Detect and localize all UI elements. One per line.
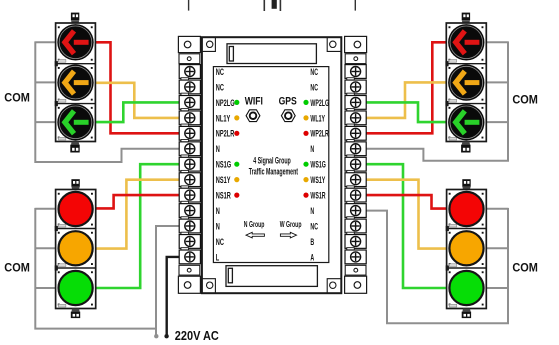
wire yellow bottom-right light to WS1Y — [364, 180, 447, 249]
terminal L1 NC — [179, 65, 200, 79]
wire COM bus bottom-right traffic light (gray) to N terminal — [364, 208, 508, 323]
terminal L9 NS1R — [179, 188, 200, 202]
wire red bottom-right light to WS1R — [364, 195, 447, 209]
mounting tab top — [462, 13, 470, 24]
terminal strip left: spacer bottom — [179, 265, 200, 275]
terminal R7 WS1G — [345, 157, 366, 171]
svg-text:WS1R: WS1R — [310, 190, 326, 201]
svg-text:WP2LG: WP2LG — [310, 97, 329, 108]
traffic light TL1 top-left (left-arrow signal heads) — [55, 13, 96, 153]
svg-text:NS1R: NS1R — [216, 190, 231, 201]
top connector slot — [227, 44, 316, 64]
module tag plates — [449, 224, 457, 307]
LED dot right row 5 — [303, 131, 308, 136]
svg-text:NC: NC — [216, 82, 224, 93]
svg-text:Traffic Management: Traffic Management — [249, 166, 299, 177]
board corner tab bottom-left with mounting hole — [202, 279, 216, 294]
svg-text:WS1G: WS1G — [310, 159, 326, 170]
LED dot right row 7 — [303, 162, 308, 167]
terminal strip left: mounting ear top — [178, 36, 200, 52]
antenna lead left — [188, 0, 190, 11]
LED dot right row 3 — [303, 100, 308, 105]
wire COM bus bottom-left traffic light (gray) to N terminal and mains neutral — [35, 208, 180, 335]
terminal R10 N — [345, 204, 366, 218]
green arrow lens — [57, 104, 93, 140]
LED dot left row 8 — [234, 177, 239, 182]
terminal R9 WS1R — [345, 188, 366, 202]
board corner tab bottom-right with mounting hole — [327, 279, 341, 294]
svg-text:B: B — [310, 236, 314, 247]
svg-text:COM: COM — [512, 94, 538, 106]
board corner tab top-right with mounting hole — [327, 37, 341, 51]
svg-text:GPS: GPS — [279, 96, 298, 108]
green lens — [449, 271, 483, 305]
terminal L2 NC — [179, 80, 200, 94]
controller board outline U1 — [202, 37, 341, 293]
terminal L12 NC — [179, 235, 200, 249]
amber lens — [449, 231, 483, 265]
yellow arrow lens — [448, 64, 484, 100]
mounting tab top — [462, 179, 470, 189]
wire red top-left light to NP2LR — [95, 42, 180, 133]
terminal L11 N — [179, 219, 200, 233]
svg-text:L: L — [216, 252, 220, 263]
terminal strip right: spacer bottom — [345, 265, 366, 275]
mounting tab bottom — [462, 309, 471, 319]
wire red top-right light to WP2LR — [364, 42, 446, 133]
wire green bottom-left light to NS1G — [96, 164, 180, 288]
svg-text:WIFI: WIFI — [245, 96, 263, 108]
wire yellow top-right light to WL1Y — [364, 82, 446, 118]
terminal R5 WP2LR — [345, 126, 366, 140]
terminal strip right: mounting ear bottom — [345, 276, 367, 293]
green arrow lens — [448, 104, 484, 140]
board corner tab top-left with mounting hole — [202, 37, 216, 51]
terminal L4 NL1Y — [179, 111, 200, 125]
red arrow lens — [57, 24, 93, 60]
svg-text:A: A — [310, 252, 314, 263]
terminal L10 N — [179, 204, 200, 218]
terminal strip right: spacer top — [345, 54, 366, 64]
red arrow lens — [448, 24, 484, 60]
mounting tab bottom — [461, 142, 470, 153]
GPS antenna nut — [281, 110, 295, 122]
module tag plates — [58, 60, 66, 141]
svg-text:220V AC: 220V AC — [175, 328, 219, 343]
module corner screws — [449, 193, 484, 306]
module tag plates — [58, 224, 66, 307]
svg-text:WS1Y: WS1Y — [310, 174, 325, 185]
terminal strip right: 13 screw terminals — [345, 65, 366, 264]
terminal strip left: mounting ear bottom — [178, 276, 200, 293]
green lens — [59, 271, 93, 305]
LED dot right row 9 — [303, 193, 308, 198]
svg-text:WP2LR: WP2LR — [310, 128, 329, 139]
WIFI antenna nut — [246, 110, 260, 122]
terminal L8 NS1Y — [179, 173, 200, 187]
svg-text:COM: COM — [4, 92, 30, 104]
mounting tab bottom — [71, 309, 80, 319]
inner label panel — [213, 67, 328, 263]
terminal strip left: 13 screw terminals — [179, 65, 200, 264]
LED dot left row 7 — [234, 162, 239, 167]
bottom connector slot — [226, 266, 317, 287]
traffic light TL3 top-right (left-arrow signal heads) — [445, 13, 486, 153]
wire COM bus top-right traffic light (gray) — [364, 41, 508, 160]
svg-text:N: N — [310, 205, 314, 216]
svg-text:COM: COM — [512, 262, 538, 274]
hinge nubs — [446, 226, 449, 231]
traffic light TL4 bottom-right (round signal heads) — [446, 179, 487, 318]
svg-text:NP2LR: NP2LR — [216, 128, 235, 139]
wire green top-right light to WP2LG — [364, 102, 446, 122]
svg-text:COM: COM — [4, 262, 30, 274]
wire yellow top-left light to NL1Y — [95, 83, 180, 118]
svg-text:N Group: N Group — [244, 220, 265, 230]
module corner screws — [58, 193, 93, 306]
svg-text:4 Signal Group: 4 Signal Group — [253, 155, 291, 166]
svg-text:NP2LG: NP2LG — [216, 97, 235, 108]
mounting tab top — [71, 13, 79, 24]
LED dot left row 4 — [234, 115, 239, 120]
svg-text:NL1Y: NL1Y — [216, 113, 231, 124]
wire yellow bottom-left light to NS1Y — [96, 180, 180, 249]
amber lens — [59, 231, 93, 265]
svg-text:N: N — [310, 144, 314, 155]
module corner screws — [449, 26, 484, 138]
svg-text:N: N — [216, 205, 220, 216]
red lens — [449, 192, 483, 226]
LED dot right row 8 — [303, 177, 308, 182]
svg-text:N: N — [216, 144, 220, 155]
LED dot left row 9 — [234, 193, 239, 198]
wire COM bus top-left traffic light (gray) — [35, 41, 180, 162]
antenna lead right — [354, 0, 356, 11]
junction mains live plug dot (black) — [164, 334, 168, 338]
housing — [56, 190, 96, 309]
svg-text:W Group: W Group — [280, 220, 302, 230]
traffic light TL2 bottom-left (round signal heads) — [55, 179, 96, 318]
terminal L3 NP2LG — [179, 96, 200, 110]
svg-text:N: N — [216, 221, 220, 232]
housing — [56, 23, 96, 142]
terminal L13 L — [179, 250, 200, 264]
module corner screws — [58, 26, 93, 138]
terminal R6 N — [345, 142, 366, 156]
LED dot left row 3 — [234, 100, 239, 105]
terminal R4 WL1Y — [345, 111, 366, 125]
wire green bottom-right light to WS1G — [364, 164, 447, 288]
terminal R2 NC — [345, 80, 366, 94]
svg-text:NS1G: NS1G — [216, 159, 231, 170]
terminal strip left: spacer top — [179, 54, 200, 64]
terminal L7 NS1G — [179, 157, 200, 171]
housing — [446, 23, 486, 142]
antenna connector center — [264, 0, 280, 11]
hinge nubs — [55, 226, 58, 231]
wire black mains live L to 220V AC — [167, 257, 180, 335]
wire red bottom-left light to NS1R — [96, 195, 180, 208]
terminal R1 NC — [345, 65, 366, 79]
yellow arrow lens — [57, 64, 93, 100]
terminal R3 WP2LG — [345, 96, 366, 110]
W Group direction arrow (right) — [280, 232, 296, 238]
hinge nubs — [55, 61, 58, 66]
terminal L6 N — [179, 142, 200, 156]
module tag plates — [449, 60, 457, 141]
svg-text:NC: NC — [216, 236, 224, 247]
svg-text:NS1Y: NS1Y — [216, 175, 231, 186]
terminal R13 A — [345, 250, 366, 264]
LED dot left row 5 — [234, 131, 239, 136]
svg-text:NC: NC — [216, 66, 224, 77]
terminal L5 NP2LR — [179, 126, 200, 140]
svg-text:NC: NC — [310, 221, 318, 232]
housing — [447, 190, 487, 309]
red lens — [59, 192, 93, 226]
mounting tab top — [71, 179, 79, 189]
svg-text:NC: NC — [310, 66, 318, 77]
terminal R11 NC — [345, 219, 366, 233]
svg-text:NC: NC — [310, 82, 318, 93]
LED dot right row 4 — [303, 115, 308, 120]
hinge nubs — [445, 61, 448, 66]
terminal strip right: mounting ear top — [345, 36, 367, 52]
terminal R8 WS1Y — [345, 173, 366, 187]
N Group direction arrow (left) — [246, 232, 264, 238]
mounting tab bottom — [70, 142, 79, 153]
svg-text:WL1Y: WL1Y — [310, 113, 325, 124]
terminal R12 B — [345, 235, 366, 249]
wire green top-left light to NP2LG — [95, 102, 180, 122]
junction mains neutral plug dot (gray) — [154, 334, 158, 338]
